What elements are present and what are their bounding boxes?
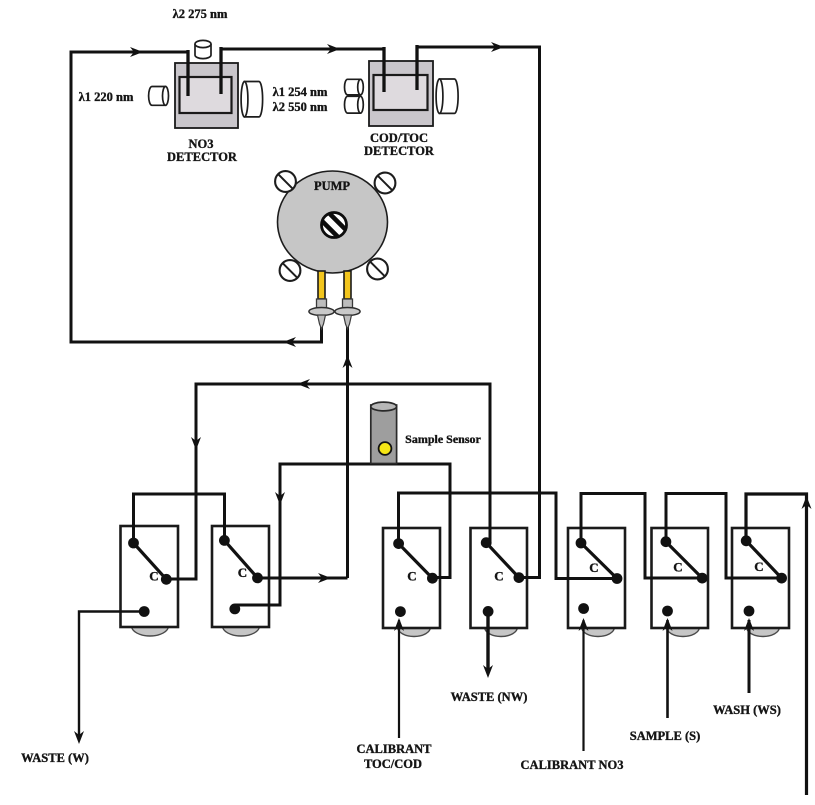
svg-text:WASTE (NW): WASTE (NW) bbox=[451, 690, 528, 704]
svg-text:TOC/COD: TOC/COD bbox=[364, 757, 422, 771]
svg-text:C: C bbox=[407, 569, 416, 584]
svg-text:PUMP: PUMP bbox=[314, 179, 350, 193]
svg-text:WASTE (W): WASTE (W) bbox=[21, 751, 89, 765]
svg-text:Sample Sensor: Sample Sensor bbox=[405, 432, 481, 446]
svg-text:COD/TOC: COD/TOC bbox=[370, 131, 428, 145]
svg-text:WASH (WS): WASH (WS) bbox=[713, 703, 781, 717]
svg-text:CALIBRANT NO3: CALIBRANT NO3 bbox=[521, 758, 624, 772]
svg-text:DETECTOR: DETECTOR bbox=[167, 150, 238, 164]
svg-text:λ1 254 nm: λ1 254 nm bbox=[273, 85, 328, 99]
svg-text:SAMPLE (S): SAMPLE (S) bbox=[630, 729, 701, 743]
svg-text:C: C bbox=[494, 569, 503, 584]
svg-text:λ2 275 nm: λ2 275 nm bbox=[173, 7, 228, 21]
svg-text:NO3: NO3 bbox=[189, 137, 214, 151]
svg-text:C: C bbox=[754, 559, 763, 574]
svg-text:C: C bbox=[149, 569, 158, 584]
svg-text:DETECTOR: DETECTOR bbox=[364, 144, 435, 158]
svg-text:λ1 220 nm: λ1 220 nm bbox=[79, 90, 134, 104]
svg-text:λ2 550 nm: λ2 550 nm bbox=[273, 100, 328, 114]
svg-text:C: C bbox=[673, 560, 682, 575]
svg-text:C: C bbox=[589, 560, 598, 575]
svg-text:C: C bbox=[238, 565, 247, 580]
svg-text:CALIBRANT: CALIBRANT bbox=[356, 742, 432, 756]
